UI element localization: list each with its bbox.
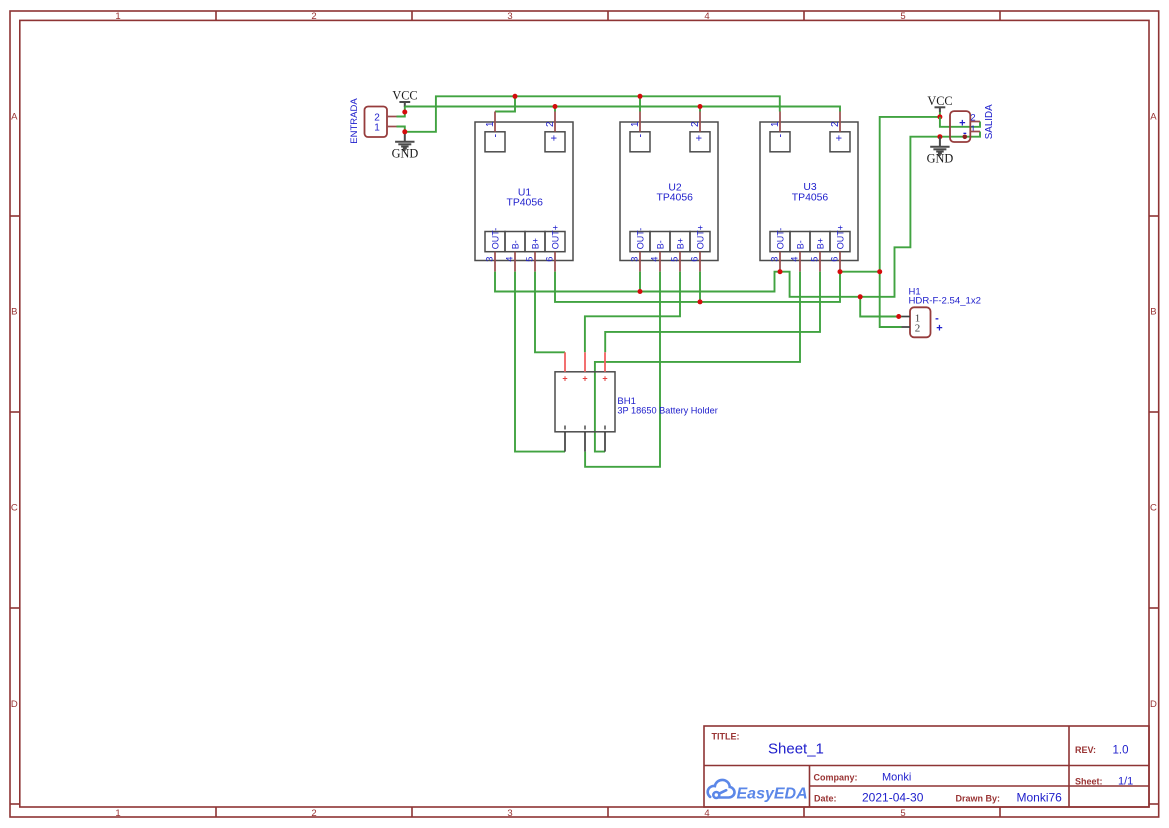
U1 pin 4	[504, 252, 515, 272]
wire U2 B- to BH1 pin2-	[585, 272, 660, 467]
U2 pin 5	[669, 252, 680, 272]
svg-text:2: 2	[311, 11, 316, 22]
junction U3 pin6	[838, 269, 843, 274]
svg-text:OUT-: OUT-	[491, 228, 501, 250]
junction GND rail / U2 pin1	[638, 94, 643, 99]
wire U1 B- to BH1 pin1-	[515, 272, 565, 452]
wire SALIDA pin1 hook	[940, 132, 980, 137]
svg-text:4: 4	[704, 808, 709, 819]
wire GND branch to H1 pin1	[860, 297, 901, 317]
pin 2 of H1	[902, 326, 911, 328]
ground GND (output)	[927, 137, 954, 166]
U3 pin 4	[789, 252, 800, 272]
svg-text:+: +	[582, 373, 587, 383]
battery holder BH1 labels	[617, 396, 717, 415]
svg-text:3: 3	[507, 808, 512, 819]
wire U3 B+ to BH1 pin3+	[605, 272, 820, 353]
U3 pin 5	[809, 252, 820, 272]
svg-text:EasyEDA: EasyEDA	[737, 785, 808, 802]
wire U2 B+ to BH1 pin2+	[585, 272, 680, 353]
svg-text:OUT+: OUT+	[836, 225, 846, 249]
pin 2 of SALIDA	[970, 121, 980, 123]
IC U3 TP4056	[760, 122, 858, 261]
wire U3 B- to BH1 pin3-	[595, 272, 800, 452]
svg-text:1: 1	[970, 124, 975, 135]
svg-text:REV:: REV:	[1075, 745, 1096, 755]
svg-text:3: 3	[484, 257, 494, 262]
IC U1 TP4056	[475, 122, 573, 261]
svg-text:B+: B+	[531, 238, 541, 249]
U1 pin 6	[544, 252, 555, 272]
svg-text:2: 2	[830, 122, 841, 127]
svg-text:-: -	[635, 133, 647, 137]
svg-text:Drawn By:: Drawn By:	[956, 794, 1001, 804]
svg-text:D: D	[11, 699, 18, 710]
junction SALIDA VCC	[937, 114, 942, 119]
svg-text:HDR-F-2.54_1x2: HDR-F-2.54_1x2	[909, 295, 982, 306]
svg-text:Company:: Company:	[814, 773, 858, 783]
wire GND rail drop to U2 pin1	[639, 96, 641, 111]
svg-text:+: +	[694, 135, 706, 141]
junction SALIDA GND	[937, 134, 942, 139]
junction VCC rail / U2 pin2	[698, 104, 703, 109]
U2 pin 4	[649, 252, 660, 272]
svg-text:+: +	[834, 135, 846, 141]
ground GND (input)	[392, 132, 419, 161]
svg-text:A: A	[1150, 112, 1157, 123]
junction at H1 pin1	[896, 314, 901, 319]
svg-text:6: 6	[544, 257, 554, 262]
svg-text:GND: GND	[392, 147, 419, 161]
wire OUT- bus	[495, 272, 780, 292]
svg-text:4: 4	[504, 257, 514, 262]
svg-text:5: 5	[669, 257, 679, 262]
U1 pin 3	[484, 252, 495, 272]
wire GND rail drop to U1 pin1	[495, 96, 515, 111]
svg-text:3P 18650 Battery Holder: 3P 18650 Battery Holder	[617, 405, 717, 415]
connector H1	[910, 307, 943, 337]
U2 pin 3	[629, 252, 640, 272]
svg-text:6: 6	[689, 257, 699, 262]
power flag VCC (input)	[392, 89, 417, 107]
svg-text:1: 1	[770, 122, 781, 127]
svg-text:Monki: Monki	[882, 772, 911, 784]
junction U2 pin3 / OUT- bus	[638, 289, 643, 294]
connector ENTRADA	[365, 107, 388, 138]
junction U3 pin3	[778, 269, 783, 274]
svg-text:3: 3	[629, 257, 639, 262]
battery holder BH1	[555, 352, 615, 451]
svg-text:3: 3	[507, 11, 512, 22]
U2 pin 1	[630, 112, 641, 132]
svg-text:5: 5	[809, 257, 819, 262]
wire U3 pin3 to GND segment	[780, 137, 940, 297]
svg-text:OUT-: OUT-	[776, 228, 786, 250]
svg-text:SALIDA: SALIDA	[984, 104, 995, 139]
svg-text:B: B	[11, 307, 17, 318]
svg-text:1: 1	[115, 808, 120, 819]
svg-text:2: 2	[311, 808, 316, 819]
EasyEDA logo	[708, 780, 808, 802]
svg-text:VCC: VCC	[927, 94, 952, 108]
svg-text:5: 5	[900, 11, 905, 22]
svg-text:+: +	[562, 373, 567, 383]
svg-text:-: -	[775, 133, 787, 137]
U3 pin 2	[830, 112, 841, 132]
IC U2 TP4056	[620, 122, 718, 261]
svg-text:TP4056: TP4056	[656, 193, 693, 204]
svg-text:1: 1	[374, 123, 380, 134]
wire GND rail to top	[405, 96, 780, 132]
pin 1 of H1	[902, 316, 911, 318]
junction GND / H1 branch	[858, 294, 863, 299]
svg-text:B-: B-	[511, 240, 521, 249]
wire branch to H1 pin2	[880, 272, 902, 327]
svg-text:C: C	[11, 503, 18, 514]
svg-text:TP4056: TP4056	[506, 198, 543, 209]
svg-text:-: -	[490, 133, 502, 137]
svg-text:Date:: Date:	[814, 794, 837, 804]
power flag VCC (output)	[927, 94, 952, 112]
svg-text:4: 4	[789, 257, 799, 262]
wire U2 pin6 to OUT+ bus	[699, 272, 701, 302]
wire U2 pin3 to OUT- bus	[639, 272, 641, 292]
junction at VCC flag	[402, 110, 407, 115]
wire SALIDA pin2 hook	[940, 117, 980, 127]
svg-text:5: 5	[524, 257, 534, 262]
svg-text:1: 1	[630, 122, 641, 127]
svg-text:4: 4	[649, 257, 659, 262]
svg-text:Monki76: Monki76	[1017, 791, 1063, 805]
svg-text:B-: B-	[796, 240, 806, 249]
wire OUT+ bus	[555, 272, 840, 302]
svg-text:VCC: VCC	[392, 89, 417, 103]
wire ENTRADA pin1 to GND	[397, 127, 405, 132]
svg-text:5: 5	[900, 808, 905, 819]
svg-text:B: B	[1150, 307, 1156, 318]
wire VCC bus (top +5V rail)	[405, 107, 840, 112]
junction GND rail / U1 pin1	[513, 94, 518, 99]
svg-text:GND: GND	[927, 152, 954, 166]
U2 pin 2	[690, 112, 701, 132]
svg-text:Sheet_1: Sheet_1	[768, 741, 824, 758]
svg-text:1: 1	[115, 11, 120, 22]
junction at GND flag	[402, 129, 407, 134]
svg-text:2: 2	[545, 122, 556, 127]
svg-text:+: +	[936, 323, 942, 335]
svg-text:1.0: 1.0	[1113, 745, 1129, 757]
svg-text:+: +	[602, 373, 607, 383]
svg-text:1/1: 1/1	[1118, 776, 1133, 788]
svg-text:A: A	[11, 112, 18, 123]
wire U3 pin6 to SALIDA VCC	[840, 117, 940, 272]
svg-text:3: 3	[769, 257, 779, 262]
svg-text:OUT+: OUT+	[551, 225, 561, 249]
svg-text:TP4056: TP4056	[792, 192, 829, 203]
svg-text:Sheet:: Sheet:	[1075, 777, 1103, 787]
svg-text:OUT-: OUT-	[636, 228, 646, 250]
pin 1 of SALIDA	[970, 131, 980, 133]
svg-text:+: +	[549, 135, 561, 141]
junction U2 pin6 / OUT+ bus	[698, 299, 703, 304]
U3 pin 6	[829, 252, 840, 272]
svg-text:OUT+: OUT+	[696, 225, 706, 249]
svg-text:B+: B+	[816, 238, 826, 249]
U2 pin 6	[689, 252, 700, 272]
wire drop to U2 pin2	[699, 107, 701, 112]
svg-text:2021-04-30: 2021-04-30	[862, 791, 924, 805]
svg-text:1: 1	[485, 122, 496, 127]
wire drop to U1 pin2	[554, 107, 556, 112]
title block	[704, 726, 1149, 807]
svg-text:2: 2	[690, 122, 701, 127]
junction OUT+ / SALIDA branch	[877, 269, 882, 274]
U3 pin 1	[770, 112, 781, 132]
svg-text:B-: B-	[656, 240, 666, 249]
U1 pin 2	[545, 112, 556, 132]
wire VCC flag to junction	[939, 112, 941, 117]
pin 1 of ENTRADA	[387, 126, 397, 128]
svg-text:2: 2	[915, 322, 921, 334]
svg-text:B+: B+	[676, 238, 686, 249]
svg-text:ENTRADA: ENTRADA	[349, 98, 360, 144]
wire U1 B+ to BH1 pin1+	[535, 272, 565, 353]
U1 pin 5	[524, 252, 535, 272]
U3 pin 3	[769, 252, 780, 272]
svg-text:D: D	[1150, 699, 1157, 710]
connector H1 labels	[909, 287, 982, 307]
pin 2 of ENTRADA	[387, 116, 397, 118]
svg-text:C: C	[1150, 503, 1157, 514]
svg-text:6: 6	[829, 257, 839, 262]
svg-text:TITLE:: TITLE:	[712, 732, 740, 742]
connector SALIDA	[950, 111, 976, 142]
svg-text:4: 4	[704, 11, 709, 22]
wire ENTRADA pin2 to VCC	[397, 107, 405, 117]
junction VCC rail / U1 pin2	[553, 104, 558, 109]
U1 pin 1	[485, 112, 496, 132]
